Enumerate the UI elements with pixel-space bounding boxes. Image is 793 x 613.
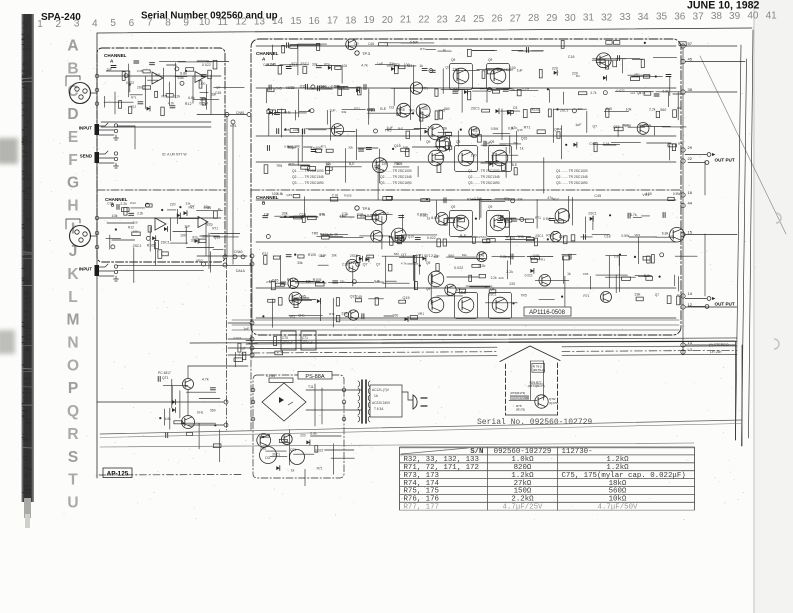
svg-text:R71: R71 [506, 235, 512, 239]
svg-text:33k: 33k [497, 215, 503, 219]
svg-text:R72)(R72): R72)(R72) [511, 396, 525, 400]
svg-text:D3: D3 [389, 106, 394, 110]
svg-text:CN60: CN60 [234, 250, 243, 254]
svg-text:VR1: VR1 [416, 254, 423, 258]
svg-text:20: 20 [382, 15, 394, 26]
svg-text:4.7k: 4.7k [361, 64, 368, 68]
svg-text:27: 27 [510, 13, 522, 24]
svg-text:VR1: VR1 [418, 312, 424, 316]
svg-text:13: 13 [688, 340, 693, 345]
svg-text:18: 18 [345, 15, 357, 26]
svg-text:4.7k: 4.7k [310, 146, 316, 150]
svg-text:1uF: 1uF [614, 254, 620, 258]
svg-text:560: 560 [448, 254, 454, 258]
svg-text:TP.3: TP.3 [362, 51, 371, 56]
svg-text:112730-: 112730- [562, 448, 593, 456]
svg-text:Q7: Q7 [363, 262, 368, 266]
svg-text:38: 38 [711, 11, 723, 22]
svg-text:0.022: 0.022 [617, 89, 625, 93]
svg-text:B-E: B-E [678, 142, 683, 146]
svg-text:CHANNEL: CHANNEL [104, 53, 127, 58]
svg-text:Q9: Q9 [490, 140, 494, 144]
svg-text:R12: R12 [128, 226, 134, 230]
svg-text:1uF: 1uF [517, 68, 523, 72]
svg-text:47u: 47u [394, 63, 400, 67]
svg-text:57: 57 [688, 41, 693, 46]
svg-text:23: 23 [437, 14, 449, 25]
svg-text:1.2kΩ: 1.2kΩ [606, 456, 629, 464]
svg-text:100: 100 [404, 63, 410, 67]
svg-text:1k: 1k [443, 49, 447, 53]
svg-text:Q9: Q9 [426, 261, 430, 265]
svg-text:R105: R105 [641, 123, 649, 127]
svg-text:INPUT: INPUT [79, 267, 92, 272]
svg-text:A: A [67, 38, 78, 55]
svg-text:(Q170): (Q170) [549, 401, 558, 405]
svg-text:1uF: 1uF [243, 327, 249, 331]
svg-text:AP1116-0508: AP1116-0508 [529, 310, 565, 316]
svg-text:1k: 1k [419, 64, 423, 68]
svg-text:Q15: Q15 [521, 136, 528, 140]
svg-text:C45: C45 [594, 194, 601, 198]
svg-text:L: L [68, 289, 77, 306]
svg-text:ID: A UR NTT W: ID: A UR NTT W [162, 153, 187, 157]
svg-text:Q9: Q9 [451, 205, 455, 209]
svg-text:(R177): (R177) [536, 384, 545, 388]
svg-text:DA1A: DA1A [236, 269, 246, 273]
svg-text:560: 560 [444, 107, 450, 111]
svg-text:1k: 1k [218, 207, 222, 211]
svg-text:Q2 ....... TR 2SC1345: Q2 ....... TR 2SC1345 [468, 175, 500, 179]
svg-text:6.8k: 6.8k [662, 232, 669, 236]
svg-text:OUT PUT: OUT PUT [715, 302, 735, 307]
svg-text:100: 100 [272, 192, 278, 196]
svg-text:33k: 33k [297, 261, 303, 265]
svg-text:Q9: Q9 [451, 58, 455, 62]
svg-text:4.7μF/50V: 4.7μF/50V [598, 504, 638, 512]
svg-text:R71: R71 [162, 94, 168, 98]
svg-text:33k: 33k [485, 68, 490, 72]
svg-text:E: E [68, 129, 78, 146]
svg-text:Serial Number 092560 and up: Serial Number 092560 and up [141, 11, 278, 22]
svg-text:100: 100 [342, 64, 348, 68]
svg-text:25: 25 [473, 14, 485, 25]
svg-text:VR1: VR1 [422, 86, 429, 90]
svg-text:10k: 10k [394, 234, 400, 238]
svg-text:220: 220 [499, 276, 504, 280]
svg-text:(R176-2): (R176-2) [533, 368, 545, 372]
svg-text:H: H [67, 198, 78, 215]
svg-text:R71: R71 [583, 294, 589, 298]
svg-text:33k: 33k [578, 107, 583, 111]
svg-text:VR2: VR2 [196, 259, 203, 263]
svg-text:2.2k: 2.2k [491, 276, 497, 280]
svg-text:1k: 1k [520, 147, 524, 151]
svg-text:2SC1: 2SC1 [133, 244, 142, 248]
svg-text:2.2k: 2.2k [431, 254, 438, 258]
svg-text:14: 14 [688, 291, 693, 296]
svg-text:P: P [68, 380, 78, 397]
svg-text:T: T [68, 472, 78, 489]
svg-text:560: 560 [210, 408, 216, 412]
svg-text:4: 4 [92, 18, 98, 29]
svg-text:VR1: VR1 [634, 73, 640, 77]
svg-text:33: 33 [619, 12, 631, 23]
svg-text:O: O [67, 357, 79, 374]
svg-text:B-E: B-E [380, 107, 387, 111]
svg-text:10kΩ: 10kΩ [609, 496, 627, 504]
svg-text:C45: C45 [215, 91, 221, 95]
svg-text:0.022: 0.022 [367, 213, 375, 217]
svg-text:1uF: 1uF [184, 225, 190, 229]
svg-text:4700uF: 4700uF [302, 341, 313, 345]
svg-text:1.0kΩ: 1.0kΩ [511, 456, 534, 464]
svg-text:R71: R71 [535, 216, 541, 220]
svg-text:PC 4817: PC 4817 [158, 371, 171, 375]
svg-text:0.022: 0.022 [234, 336, 242, 340]
svg-text:1k: 1k [567, 272, 571, 276]
svg-text:22: 22 [688, 156, 693, 161]
svg-text:30: 30 [565, 13, 577, 24]
svg-text:82p: 82p [288, 146, 294, 150]
svg-text:B-E: B-E [299, 314, 306, 318]
svg-text:6.8k: 6.8k [310, 432, 317, 436]
svg-text:N: N [67, 335, 78, 352]
svg-text:6.8k: 6.8k [180, 72, 187, 76]
svg-text:19: 19 [363, 15, 375, 26]
svg-text:Q71: Q71 [290, 448, 296, 452]
svg-text:B-E: B-E [349, 162, 355, 166]
svg-text:6.8k: 6.8k [508, 127, 514, 131]
svg-text:R12: R12 [130, 201, 136, 205]
svg-text:0.022: 0.022 [454, 266, 463, 270]
svg-text:2SC1: 2SC1 [588, 212, 597, 216]
svg-text:41: 41 [766, 10, 778, 21]
svg-text:TR5: TR5 [276, 164, 282, 168]
svg-text:B-E: B-E [398, 127, 403, 131]
svg-text:2SC1: 2SC1 [535, 234, 543, 238]
svg-text:Q2 ....... TR 2SC1345: Q2 ....... TR 2SC1345 [556, 175, 588, 179]
svg-text:18kΩ: 18kΩ [609, 480, 627, 488]
svg-text:SPA-240: SPA-240 [41, 12, 81, 23]
svg-text:C45: C45 [263, 63, 269, 67]
svg-text:T 6 3A: T 6 3A [374, 407, 384, 411]
svg-text:Q9: Q9 [426, 140, 430, 144]
svg-text:AC220 240V: AC220 240V [372, 401, 391, 405]
svg-text:C45: C45 [275, 86, 282, 90]
svg-text:Q15: Q15 [350, 295, 357, 299]
svg-text:2.2k: 2.2k [266, 280, 272, 284]
svg-text:100: 100 [392, 313, 398, 317]
svg-text:1.2kΩ: 1.2kΩ [606, 464, 629, 472]
svg-text:40: 40 [747, 11, 759, 22]
svg-text:R74, 174: R74, 174 [404, 480, 440, 488]
svg-text:0.5W: 0.5W [474, 197, 483, 201]
svg-text:R: R [67, 426, 78, 443]
svg-text:D3: D3 [382, 162, 387, 166]
svg-text:34: 34 [638, 12, 650, 23]
svg-text:0.5W: 0.5W [621, 234, 630, 238]
svg-text:2SC1: 2SC1 [350, 254, 358, 258]
svg-text:JUNE 10, 1982: JUNE 10, 1982 [687, 0, 760, 12]
svg-text:0.022: 0.022 [126, 81, 134, 85]
svg-text:R73, 173: R73, 173 [404, 472, 439, 480]
svg-text:6.8k: 6.8k [431, 216, 438, 220]
svg-text:0.022: 0.022 [417, 212, 426, 216]
svg-text:15: 15 [290, 16, 302, 27]
svg-text:R71: R71 [317, 467, 323, 471]
svg-text:33k: 33k [348, 146, 353, 150]
svg-text:K: K [67, 266, 79, 283]
svg-text:560: 560 [326, 86, 332, 90]
svg-text:C18: C18 [568, 55, 575, 59]
svg-text:Q3 ....... TR 2SC1690: Q3 ....... TR 2SC1690 [292, 181, 324, 185]
svg-text:47u: 47u [319, 213, 325, 217]
svg-text:TR5: TR5 [312, 232, 319, 236]
svg-text:1k: 1k [427, 216, 431, 220]
svg-text:Q9: Q9 [488, 58, 492, 62]
svg-text:28: 28 [528, 13, 540, 24]
svg-text:0.022: 0.022 [315, 449, 324, 453]
svg-text:Q15: Q15 [286, 193, 292, 197]
svg-text:1uF: 1uF [329, 108, 336, 112]
svg-text:0.5W: 0.5W [199, 102, 208, 106]
svg-text:R71: R71 [289, 162, 296, 166]
svg-text:10k: 10k [264, 212, 270, 216]
svg-text:Q7: Q7 [376, 263, 381, 267]
svg-text:0.5W: 0.5W [204, 206, 213, 210]
svg-text:1k: 1k [291, 469, 295, 473]
svg-text:33k: 33k [341, 110, 346, 114]
svg-text:Q1 ....... TR 2SC1000: Q1 ....... TR 2SC1000 [556, 169, 588, 173]
svg-text:CHANNEL: CHANNEL [256, 51, 279, 56]
svg-text:150Ω: 150Ω [514, 488, 532, 496]
svg-text:AP-125: AP-125 [107, 471, 129, 478]
svg-text:R105: R105 [147, 244, 155, 248]
svg-text:R75, 175: R75, 175 [404, 488, 439, 496]
svg-text:560: 560 [394, 252, 399, 256]
svg-text:TR5: TR5 [521, 294, 527, 298]
svg-text:R105: R105 [344, 194, 352, 198]
svg-text:220: 220 [509, 282, 515, 286]
svg-text:QT1: QT1 [162, 376, 169, 380]
svg-text:220: 220 [300, 434, 306, 438]
svg-text:C45: C45 [137, 69, 143, 73]
svg-text:31: 31 [583, 13, 595, 24]
svg-text:82p: 82p [207, 223, 213, 227]
svg-text:6: 6 [129, 18, 135, 29]
svg-text:0.5W: 0.5W [491, 127, 499, 131]
svg-text:2SC1: 2SC1 [471, 106, 480, 110]
svg-text:Q1 ....... TR 2SC1000: Q1 ....... TR 2SC1000 [468, 169, 500, 173]
svg-text:2.2k: 2.2k [137, 211, 143, 215]
svg-text:220: 220 [552, 67, 558, 71]
svg-text:Q1 ....... TR 2SC1000: Q1 ....... TR 2SC1000 [380, 169, 412, 173]
svg-text:SEND: SEND [80, 154, 92, 159]
svg-text:2SC1: 2SC1 [137, 86, 145, 90]
svg-text:VR1: VR1 [642, 193, 649, 197]
svg-text:D: D [67, 106, 78, 123]
svg-text:INPUT: INPUT [79, 126, 92, 131]
svg-text:0.5W: 0.5W [522, 86, 529, 90]
svg-text:10k: 10k [112, 214, 118, 218]
svg-text:D3: D3 [356, 85, 360, 89]
svg-text:R12: R12 [185, 102, 192, 106]
svg-text:1k: 1k [396, 162, 400, 166]
svg-text:Q15: Q15 [374, 164, 381, 168]
svg-text:4.7k: 4.7k [401, 262, 407, 266]
svg-text:4.7k: 4.7k [287, 86, 294, 90]
svg-text:10k: 10k [626, 108, 632, 112]
svg-text:Q2 ....... TR 2SC1345: Q2 ....... TR 2SC1345 [292, 175, 324, 179]
svg-text:VR1: VR1 [634, 233, 640, 237]
svg-text:100: 100 [422, 107, 428, 111]
svg-text:R71: R71 [546, 234, 552, 238]
svg-text:560: 560 [660, 108, 666, 112]
svg-text:B-E: B-E [461, 291, 466, 295]
svg-text:820Ω: 820Ω [514, 464, 532, 472]
svg-text:6.8k: 6.8k [188, 96, 195, 100]
svg-text:35: 35 [656, 12, 668, 23]
svg-text:Q2 ....... TR 2SC1345: Q2 ....... TR 2SC1345 [380, 175, 412, 179]
svg-text:Q15: Q15 [394, 144, 401, 148]
svg-text:16: 16 [309, 16, 321, 27]
svg-text:TR5: TR5 [409, 109, 415, 113]
svg-text:33k: 33k [517, 197, 523, 201]
svg-text:C18: C18 [107, 201, 113, 205]
svg-text:38: 38 [688, 87, 693, 92]
svg-text:B-E: B-E [460, 234, 467, 238]
svg-text:36: 36 [674, 12, 686, 23]
svg-text:M: M [67, 312, 80, 329]
svg-text:TP.6: TP.6 [362, 206, 371, 211]
svg-text:Q3 ....... TR 2SC1690: Q3 ....... TR 2SC1690 [556, 181, 588, 185]
svg-text:0.5W: 0.5W [543, 217, 552, 221]
svg-text:R71: R71 [291, 62, 297, 66]
svg-text:2.2k: 2.2k [478, 264, 485, 268]
svg-text:560: 560 [202, 235, 208, 239]
svg-text:5: 5 [110, 18, 116, 29]
svg-text:Q15: Q15 [319, 254, 325, 258]
svg-text:(*) STEREO: (*) STEREO [709, 343, 729, 347]
svg-text:S: S [68, 449, 78, 466]
svg-text:Q70: Q70 [260, 447, 266, 451]
svg-text:Q9: Q9 [426, 114, 430, 118]
svg-text:24: 24 [455, 14, 467, 25]
svg-text:R71: R71 [524, 126, 531, 130]
svg-text:B: B [67, 60, 78, 77]
svg-text:B-E: B-E [284, 110, 291, 114]
svg-text:33k: 33k [513, 141, 518, 145]
svg-text:21: 21 [400, 15, 412, 26]
svg-text:1uF: 1uF [575, 123, 582, 127]
svg-text:OUT PUT: OUT PUT [715, 158, 735, 163]
svg-text:Q7: Q7 [655, 293, 659, 297]
svg-text:6.8k: 6.8k [374, 280, 380, 284]
svg-text:0.022: 0.022 [525, 274, 533, 278]
svg-text:220: 220 [170, 203, 176, 207]
svg-text:PS-88A: PS-88A [305, 374, 325, 380]
svg-text:100: 100 [325, 162, 330, 166]
svg-text:2.2kΩ: 2.2kΩ [511, 496, 534, 504]
svg-text:TR5: TR5 [453, 67, 459, 71]
svg-text:4.7k: 4.7k [168, 101, 174, 105]
svg-text:R71: R71 [131, 95, 137, 99]
svg-text:0.5W: 0.5W [673, 192, 681, 196]
svg-text:29: 29 [688, 145, 693, 150]
svg-text:B-E: B-E [512, 163, 518, 167]
svg-text:R12: R12 [262, 252, 268, 256]
svg-text:4.7μF/25V: 4.7μF/25V [503, 504, 543, 512]
svg-text:Q15: Q15 [338, 86, 345, 90]
svg-text:VR1: VR1 [230, 124, 237, 128]
svg-text:Q: Q [67, 403, 79, 420]
svg-text:1k: 1k [334, 233, 338, 237]
svg-text:G: G [67, 175, 79, 192]
svg-text:R105: R105 [308, 253, 316, 257]
svg-text:0.022: 0.022 [427, 236, 436, 240]
svg-text:82p: 82p [462, 253, 467, 257]
svg-text:Q9: Q9 [488, 205, 492, 209]
svg-text:092560-102729: 092560-102729 [494, 448, 552, 456]
svg-text:32: 32 [601, 12, 613, 23]
svg-text:15: 15 [688, 230, 693, 235]
svg-text:33k: 33k [282, 212, 288, 216]
svg-text:U: U [67, 495, 78, 512]
svg-text:Q9: Q9 [456, 140, 460, 144]
svg-text:6.8k: 6.8k [178, 76, 185, 80]
svg-text:2SC1: 2SC1 [300, 62, 309, 66]
svg-text:33k: 33k [634, 293, 640, 297]
svg-text:100: 100 [200, 81, 205, 85]
svg-text:S/N: S/N [470, 448, 483, 456]
svg-text:AC121-(?)V: AC121-(?)V [372, 388, 390, 392]
svg-text:C45: C45 [479, 254, 485, 258]
svg-text:D3: D3 [265, 456, 270, 460]
svg-text:Q1 ....... TR 2SC1000: Q1 ....... TR 2SC1000 [292, 169, 324, 173]
svg-text:C45: C45 [583, 272, 589, 276]
svg-text:C1 84: C1 84 [266, 374, 275, 378]
svg-text:R12: R12 [623, 123, 629, 127]
svg-text:R71: R71 [212, 227, 218, 231]
svg-text:Q7: Q7 [554, 127, 559, 131]
svg-text:82p: 82p [367, 108, 373, 112]
svg-text:Q3 ....... TR 2SC1690: Q3 ....... TR 2SC1690 [380, 181, 412, 185]
svg-text:0.5W: 0.5W [410, 41, 419, 45]
svg-text:Q9: Q9 [426, 287, 430, 291]
svg-text:C18: C18 [299, 213, 306, 217]
svg-text:R32, 33, 132, 133: R32, 33, 132, 133 [404, 456, 479, 464]
svg-text:82p: 82p [192, 236, 198, 240]
svg-text:82p: 82p [324, 63, 330, 67]
svg-text:33k: 33k [340, 280, 346, 284]
svg-text:4.7k: 4.7k [202, 377, 209, 381]
svg-text:4.7k: 4.7k [590, 91, 596, 95]
svg-text:37: 37 [693, 11, 705, 22]
svg-text:C75, 175(mylar cap. 0.022μF): C75, 175(mylar cap. 0.022μF) [562, 472, 686, 480]
svg-text:10k: 10k [331, 254, 337, 258]
svg-text:1.2kΩ: 1.2kΩ [511, 472, 534, 480]
svg-text:26: 26 [491, 14, 503, 25]
svg-text:R77, 177: R77, 177 [404, 504, 439, 512]
svg-text:C45: C45 [368, 42, 374, 46]
svg-text:2.2k: 2.2k [174, 95, 181, 99]
svg-text:R71: R71 [424, 254, 430, 258]
svg-text:6.8k: 6.8k [165, 417, 171, 421]
svg-text:R12: R12 [131, 104, 137, 108]
svg-text:Q9: Q9 [490, 287, 494, 291]
svg-text:(R175): (R175) [516, 408, 525, 412]
